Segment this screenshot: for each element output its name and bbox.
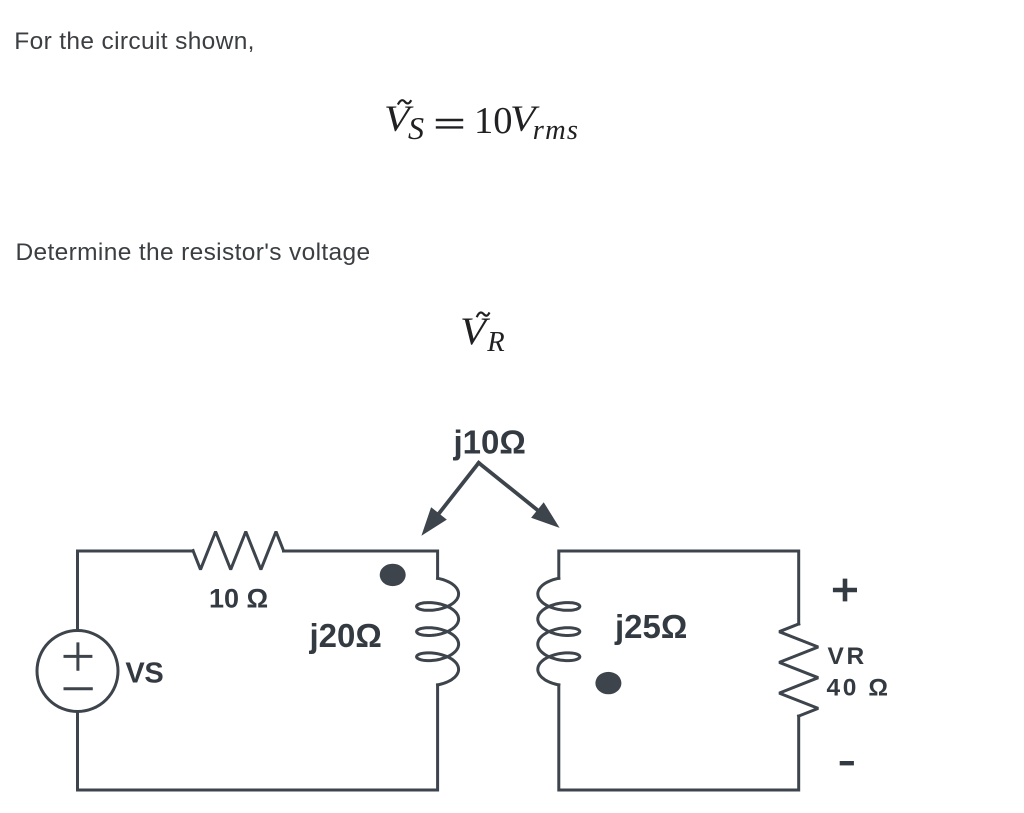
formula VR [460, 312, 486, 352]
svg-text:j25Ω: j25Ω [614, 608, 687, 645]
arrowhead right [531, 502, 560, 528]
heading line 1 [14, 30, 255, 55]
inductor L2 j25 coil [538, 578, 580, 685]
equals sign of formula 1 [437, 120, 462, 127]
svg-text:VR: VR [828, 643, 867, 670]
resistor R1 10ohm zigzag [193, 532, 284, 570]
svg-text:VS: VS [125, 658, 163, 690]
minus label for VR [840, 761, 854, 765]
svg-text:40 Ω: 40 Ω [827, 675, 891, 702]
svg-text:j20Ω: j20Ω [309, 617, 382, 654]
svg-text:10 Ω: 10 Ω [209, 584, 268, 614]
right box top wire [559, 551, 799, 624]
svg-text:j10Ω: j10Ω [453, 424, 526, 461]
wire left-box right side lower [78, 685, 438, 790]
polarity dot left coil [380, 564, 406, 586]
arrowhead left [421, 507, 446, 536]
tilde accent of formula 2 V [477, 313, 489, 317]
formula Vs = 10Vrms [384, 101, 410, 138]
voltage source VS circle [37, 631, 118, 712]
polarity dot right coil [595, 672, 621, 694]
mutual coupling arrow right line [479, 463, 542, 514]
minus sign inside source [65, 687, 91, 690]
plus label for VR [833, 579, 857, 602]
resistor R2 40ohm zigzag [779, 624, 818, 716]
wire left-box top side [78, 551, 194, 629]
right box bottom wires [559, 685, 799, 790]
inductor L1 j20 coil [417, 578, 459, 685]
plus sign inside source [65, 644, 91, 669]
mutual coupling arrow left line [435, 463, 478, 518]
tilde accent of formula 1 V [398, 100, 410, 103]
wire top side right of resistor [284, 551, 438, 578]
heading line 2 [16, 241, 371, 266]
